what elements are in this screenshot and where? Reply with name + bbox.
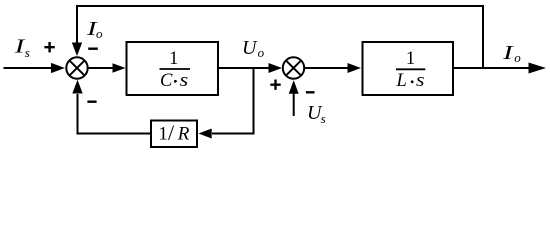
sign plus at summer2 bbox=[270, 80, 280, 90]
svg-text:1: 1 bbox=[169, 49, 178, 69]
wire node Uo takeoff down bbox=[212, 68, 254, 134]
summer1 cross bbox=[69, 60, 84, 75]
svg-text:/: / bbox=[168, 120, 175, 145]
wire summer2 to block L bbox=[305, 67, 350, 69]
svg-text:1: 1 bbox=[158, 124, 168, 145]
arrowhead into block 1/R bbox=[199, 129, 212, 139]
wire Us input bbox=[293, 93, 295, 116]
wire block L to output Io bbox=[454, 67, 530, 69]
svg-text:1: 1 bbox=[406, 49, 415, 69]
svg-text:s: s bbox=[416, 71, 425, 91]
arrowhead bottom feedback into summer1 bbox=[72, 80, 82, 94]
arrowhead into block C bbox=[113, 63, 126, 73]
svg-text:o: o bbox=[96, 26, 103, 41]
summer2 cross bbox=[286, 60, 301, 75]
block L fraction bar bbox=[396, 68, 425, 70]
svg-text:C: C bbox=[160, 71, 173, 91]
sign plus at summer1 bbox=[44, 42, 54, 52]
svg-text:s: s bbox=[25, 45, 30, 60]
summer1 circle bbox=[66, 57, 87, 78]
summer2 circle bbox=[283, 57, 304, 78]
sign minus at summer2 bbox=[306, 91, 315, 93]
block 1/R bbox=[151, 121, 197, 148]
arrowhead output Io bbox=[529, 63, 547, 74]
wire top feedback Io bbox=[77, 6, 483, 68]
wire block 1/R to summer1 bbox=[78, 94, 151, 134]
block L ds bbox=[363, 42, 454, 95]
svg-text:o: o bbox=[514, 50, 521, 65]
svg-text:U: U bbox=[242, 37, 258, 59]
svg-text:o: o bbox=[258, 45, 265, 60]
arrowhead top feedback into summer1 bbox=[72, 43, 82, 57]
svg-text:s: s bbox=[321, 111, 326, 126]
arrowhead into block L bbox=[348, 63, 362, 73]
svg-text:R: R bbox=[177, 124, 190, 145]
svg-text:s: s bbox=[180, 71, 189, 91]
wire block C to summer2 (node Uo) bbox=[219, 67, 270, 69]
arrowhead into summer2 bbox=[269, 63, 283, 73]
block C fraction bar bbox=[160, 68, 191, 70]
wire input Is bbox=[4, 67, 53, 69]
svg-text:I: I bbox=[502, 42, 515, 64]
sign minus at summer1 bottom bbox=[87, 100, 96, 102]
arrowhead into summer1 bbox=[51, 63, 65, 73]
block C ds bbox=[127, 42, 219, 95]
sign minus at summer1 top bbox=[88, 48, 98, 50]
wire summer1 to block C bbox=[89, 67, 115, 69]
svg-text:L: L bbox=[396, 71, 407, 91]
arrowhead Us into summer2 bbox=[289, 80, 299, 94]
